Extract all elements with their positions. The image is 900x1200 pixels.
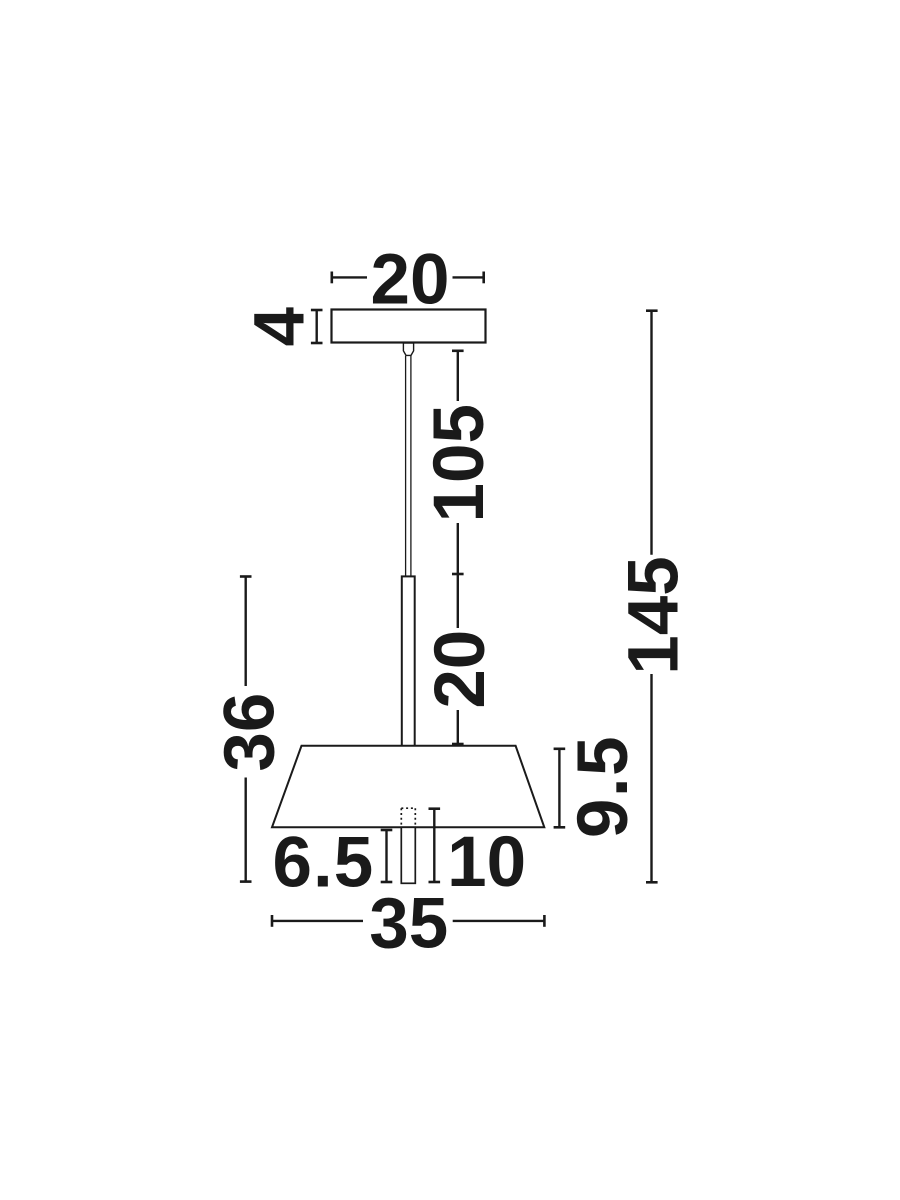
svg-text:105: 105 (420, 404, 499, 522)
svg-text:20: 20 (371, 241, 450, 320)
svg-text:6.5: 6.5 (273, 823, 375, 902)
svg-text:145: 145 (615, 556, 694, 674)
svg-text:10: 10 (447, 823, 526, 902)
svg-text:9.5: 9.5 (564, 735, 643, 838)
svg-text:4: 4 (240, 306, 319, 346)
svg-text:20: 20 (421, 630, 500, 709)
svg-text:35: 35 (369, 884, 448, 963)
svg-text:36: 36 (211, 693, 290, 772)
